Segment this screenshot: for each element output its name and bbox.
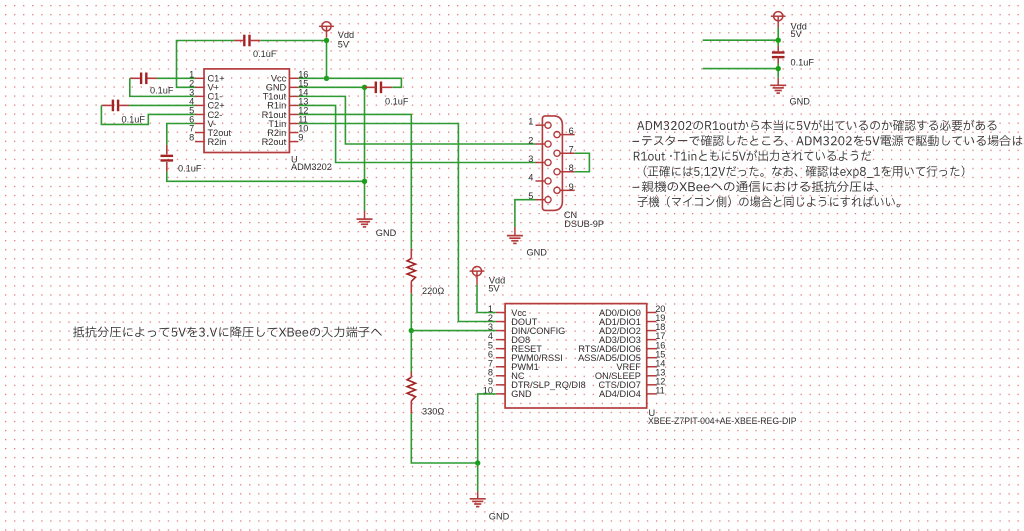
wire cap left terminal down to pin3 [130, 78, 195, 96]
resistor R 220ohm [407, 249, 415, 294]
svg-text:7: 7 [569, 145, 574, 155]
svg-text:9: 9 [298, 133, 303, 143]
junction (upper rail) [776, 38, 781, 43]
wire divider node to XBee DIN [411, 330, 496, 332]
U XBEE right pin stubs 20-11 [647, 313, 656, 394]
svg-text:0.1uF: 0.1uF [122, 115, 146, 125]
wire Vdd down [777, 28, 779, 47]
svg-text:330Ω: 330Ω [422, 407, 444, 417]
svg-text:0.1uF: 0.1uF [178, 164, 202, 174]
svg-text:GND: GND [376, 228, 397, 238]
U ADM3202 right pin numbers 16-9 [298, 69, 308, 142]
CN DSUB pin numbers 1-5 [528, 117, 533, 202]
capacitor C 0.1uF (V- vertical) [161, 145, 174, 172]
wire GND net vertical down [364, 87, 366, 210]
svg-text:GND: GND [489, 512, 510, 522]
capacitor C 0.1uF (top right) [772, 46, 785, 63]
svg-text:R2in: R2in [208, 137, 227, 147]
wire R1out pin12 to 220 ohm resistor [298, 114, 411, 248]
power Vdd symbol (top right) [771, 12, 786, 28]
wire DSUB pin5 to ground [515, 200, 536, 227]
U ADM3202 left pin names [208, 74, 232, 147]
CN DSUB pin numbers 6-9 [569, 126, 574, 192]
svg-text:GND: GND [511, 389, 532, 399]
svg-text:11: 11 [655, 385, 665, 395]
svg-text:0.1uF: 0.1uF [253, 49, 277, 59]
wire cap to Vdd junction [260, 40, 326, 42]
svg-text:1: 1 [528, 117, 533, 127]
wire XBee GND pin10 to bottom rail [478, 394, 496, 463]
wire 330 ohm to bottom GND rail [411, 414, 477, 463]
wire Vcc pin16 loop to cap [298, 78, 401, 87]
svg-text:5V: 5V [488, 283, 500, 293]
wire cap right lead to pin1 [157, 77, 195, 79]
power Vdd symbol (top centre) [319, 22, 334, 38]
wire Vdd down to Vcc row [326, 41, 328, 79]
ground symbol (ADM) [357, 219, 373, 227]
CN DSUB left pin circles 1-5 [545, 122, 551, 203]
U XBEE left pin names [511, 308, 586, 399]
wire cap left terminal routed to pin5 [101, 105, 195, 124]
svg-text:0.1uF: 0.1uF [791, 57, 815, 67]
resistor R 330ohm [407, 372, 415, 414]
svg-text:8: 8 [189, 133, 194, 143]
svg-text:ADM3202: ADM3202 [291, 162, 332, 172]
U XBEE left pin numbers 1-10 [483, 304, 493, 395]
svg-text:GND: GND [527, 248, 548, 258]
ground symbol (bottom) [470, 499, 486, 507]
wire V+ net: pin2 up and across to cap [177, 41, 235, 88]
CN DSUB right pin circles 6-9 [554, 132, 560, 194]
wire cap to lower junction [777, 64, 779, 78]
wire Vdd to XBee Vcc pin1 [477, 285, 496, 313]
annotation text (left, resistor divider note) [73, 326, 382, 337]
svg-text:DSUB-9P: DSUB-9P [564, 219, 604, 229]
svg-text:GND: GND [790, 96, 811, 106]
svg-text:9: 9 [569, 182, 574, 192]
svg-text:0.1uF: 0.1uF [385, 96, 409, 106]
junction (GND cross) [362, 179, 367, 184]
wire T1in pin11 to XBee DOUT [298, 124, 495, 322]
U XBEE right pin names [578, 308, 641, 399]
junction (bottom GND) [475, 460, 480, 465]
svg-text:AD4/DIO4: AD4/DIO4 [599, 389, 641, 399]
U XBEE left pin stubs 1-10 [496, 313, 505, 394]
wire R1in pin13 to DSUB pin3 [298, 105, 535, 162]
wire GND pin15 to cap junction [298, 86, 364, 88]
wire junction down to ground [477, 463, 479, 491]
wire cap bottom to GND net [167, 172, 365, 182]
capacitor C 0.1uF (pins 4-5) [101, 100, 129, 112]
power Vdd symbol (XBee) [470, 267, 485, 283]
junction (lower rail) [776, 66, 781, 71]
wire 220 ohm to divider junction [410, 293, 412, 330]
wire cap right lead to pin4 [129, 104, 195, 106]
annotation text block (right) [632, 120, 1024, 208]
svg-text:6: 6 [569, 126, 574, 136]
wire V- pin6 to cap [167, 124, 195, 145]
wire T1out pin14 to DSUB pin2 [298, 96, 535, 144]
svg-text:4: 4 [528, 172, 533, 182]
wire stub left (lower) [703, 68, 779, 70]
junction (divider node) [409, 328, 414, 333]
U ADM3202 right pin stubs 16-9 [289, 78, 298, 141]
U ADM3202 left pin stubs 1-8 [195, 78, 204, 141]
junction (Vdd / pin16 wire) [324, 76, 329, 81]
svg-text:XBEE-Z7PIT-004+AE-XBEE-REG-DIP: XBEE-Z7PIT-004+AE-XBEE-REG-DIP [648, 416, 797, 426]
svg-text:5V: 5V [338, 40, 350, 50]
U ADM3202 left pin numbers 1-8 [189, 69, 194, 142]
wire stub left (upper) [703, 39, 779, 41]
junction (Vdd / cap row) [324, 38, 329, 43]
capacitor C 0.1uF (pins 1-3) [130, 73, 157, 85]
CN DSUB left pin stubs [536, 125, 545, 200]
CN DSUB right pin stubs [560, 135, 575, 191]
capacitor C top-centre 0.1uF [234, 35, 260, 47]
connector CN DSUB-9P body [542, 116, 562, 210]
ground symbol (top right) [770, 85, 786, 93]
wire divider junction down to 330 ohm [410, 331, 412, 372]
svg-text:2: 2 [528, 135, 533, 145]
op-amp/IC U ADM3202 body [204, 69, 289, 153]
svg-text:8: 8 [569, 163, 574, 173]
svg-text:0.1uF: 0.1uF [150, 86, 174, 96]
U XBEE right pin numbers 20-11 [655, 304, 665, 395]
svg-text:R2out: R2out [262, 137, 287, 147]
ground symbol (DSUB) [507, 236, 523, 244]
wire DSUB pin7 to pin8 loop [575, 153, 590, 172]
U ADM3202 right pin names [262, 74, 287, 147]
svg-text:220Ω: 220Ω [422, 286, 444, 296]
junction (pin15/cap) [362, 85, 367, 90]
IC U XBEE module body [505, 304, 647, 408]
svg-text:5V: 5V [791, 29, 803, 39]
svg-text:3: 3 [528, 154, 533, 164]
capacitor C 0.1uF (Vcc right) [365, 82, 393, 94]
